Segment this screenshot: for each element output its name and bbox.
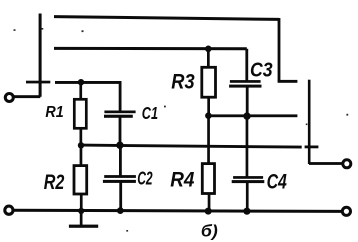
terminal: input bottom-left [5,206,13,214]
wire: C4 bottom lead [246,183,249,211]
svg-text:C2: C2 [137,169,152,189]
wire: R1 top lead [79,82,82,100]
wire: right corner stub [278,80,298,83]
wire: right output vertical [308,80,311,164]
node: junction C3 bottom [243,112,250,119]
wire: top rail 1 [54,17,279,20]
capacitor C4 top plate [233,176,263,179]
wire: C1 bottom lead [119,117,122,146]
svg-text:C4: C4 [267,170,288,193]
svg-text:R3: R3 [171,69,194,93]
wire: middle vertical R3-R4 [207,116,210,164]
wire: top rail 2 [54,47,247,50]
wire: R1 bottom lead [80,129,83,147]
svg-text:б): б) [201,222,218,240]
resistor R1 [74,99,86,128]
wire: C2 top lead [119,146,122,176]
terminal: output bottom-right [342,207,350,215]
wire: middle horizontal R1-R2 node rail [81,145,302,147]
terminal: input top-left [5,94,13,102]
wire: top-left input terminal lead [12,95,40,98]
capacitor C3 top plate [230,80,261,83]
wire: bottom rail [12,210,342,211]
capacitor C3 bottom plate [229,85,261,88]
wire: R3 top lead [207,49,210,67]
wire: short stub crossing left bus at y=82 [26,81,50,84]
wire: C3 bottom lead [246,87,249,116]
svg-text:R4: R4 [170,168,194,192]
resistor R4 [202,164,214,194]
wire: R2 bottom lead [80,194,83,211]
node: junction C1/C2 [116,142,123,149]
capacitor C4 bottom plate [232,180,265,183]
capacitor C2 top plate [104,175,136,178]
capacitor C1 bottom plate [104,115,133,118]
wire: horizontal to R1/C1 node [55,81,121,84]
wire: left vertical bus [39,14,42,97]
wire: horizontal R3/C3 node rail [208,114,297,117]
wire: C3 top lead from rail 2 corner [245,49,248,82]
svg-text:C3: C3 [250,59,273,81]
node: junction R1 top [78,79,84,85]
node: junction R3 top [205,46,212,53]
wire: crossing tick over right vertical at y=146.5 [305,146,319,149]
resistor R3 [202,67,216,97]
wire: right output top lead [309,162,342,165]
node: junction R1/R2 [78,142,84,148]
terminal: output top-right [343,160,351,168]
wire: right corner vertical from top rail [278,18,281,81]
svg-text:R1: R1 [45,104,63,121]
resistor R2 [74,166,87,194]
wire: R2 top lead [80,146,83,165]
speckles [14,29,16,31]
svg-text:C1: C1 [142,103,158,123]
wire: R3 bottom lead [207,97,210,116]
svg-text:R2: R2 [44,170,65,194]
node: junction C4 bottom [243,208,250,215]
capacitor C1 top plate [104,111,135,114]
ground [69,225,98,228]
wire: ground stub [80,211,83,225]
node: junction R2/ground [78,208,84,214]
node: junction C2 bottom [117,207,124,214]
wire: R4 bottom lead [208,193,211,212]
node: junction R4 bottom [205,208,212,215]
node: junction R3 bottom [205,112,212,119]
wire: C3-C4 column vertical [246,116,249,177]
capacitor C2 bottom plate [103,180,136,183]
wire: C2 bottom lead [119,183,122,212]
wire: C1 top lead from y=82 corner [119,81,122,112]
